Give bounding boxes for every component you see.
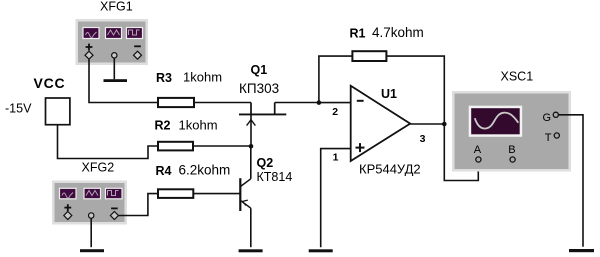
ground (right, XSC1 G) <box>569 249 594 252</box>
ground (XFG2 common) <box>80 249 104 252</box>
node (output) <box>442 122 447 127</box>
svg-text:XSC1: XSC1 <box>501 70 534 84</box>
oscilloscope XSC1 <box>452 70 571 172</box>
svg-text:T: T <box>545 132 552 144</box>
svg-text:6.2kohm: 6.2kohm <box>179 162 231 177</box>
svg-text:U1: U1 <box>381 87 397 101</box>
svg-text:R4: R4 <box>156 164 172 178</box>
svg-text:XFG1: XFG1 <box>100 0 133 14</box>
transistor Q2 (KT814) <box>240 156 292 247</box>
wire R2 to gate node <box>193 145 251 147</box>
svg-text:2: 2 <box>332 106 338 118</box>
node (gate of Q1 / R2 / Q2 collector) <box>249 144 254 149</box>
svg-text:-15V: -15V <box>5 101 32 115</box>
svg-text:XFG2: XFG2 <box>82 161 115 175</box>
power source VCC <box>5 75 70 125</box>
wire inverting input <box>319 102 351 104</box>
svg-text:1kohm: 1kohm <box>183 70 222 85</box>
svg-text:1kohm: 1kohm <box>179 117 218 132</box>
wire op-amp output <box>410 123 444 125</box>
wire VCC to R2 <box>58 125 159 159</box>
svg-text:КП303: КП303 <box>239 81 279 96</box>
wire R4 to Q2 base <box>193 193 240 195</box>
svg-text:3: 3 <box>420 133 426 145</box>
ground (Q2 emitter) <box>239 249 263 252</box>
function generator XFG2 <box>52 161 127 225</box>
svg-text:4.7kohm: 4.7kohm <box>372 25 424 40</box>
svg-text:1: 1 <box>333 152 339 164</box>
node (inverting input) <box>317 100 322 105</box>
svg-text:Q2: Q2 <box>257 156 274 170</box>
svg-text:КР544УД2: КР544УД2 <box>359 161 421 176</box>
wire output to XSC1 A <box>444 124 478 181</box>
resistor R1 <box>350 25 424 61</box>
wire node to Q2 collector <box>250 146 252 179</box>
function generator XFG1 <box>76 0 149 65</box>
ground (op-amp + input) <box>309 249 333 252</box>
wire XSC1 G to ground <box>558 115 583 247</box>
svg-text:B: B <box>508 144 515 156</box>
svg-text:R2: R2 <box>155 119 171 133</box>
wire R1 right to output node <box>386 56 444 124</box>
wire XFG2 - to R4 <box>119 194 158 216</box>
wire non-inverting input to ground <box>321 149 351 248</box>
wire XFG1 + to R3 <box>89 59 158 102</box>
transistor Q1 (JFET KP303) <box>239 63 286 147</box>
wire XFG2 common to ground <box>90 218 92 247</box>
svg-text:Q1: Q1 <box>251 63 268 77</box>
wire R1 left to node 2 <box>319 56 353 103</box>
resistor R3 <box>156 70 222 108</box>
resistor R2 <box>155 117 218 150</box>
svg-text:A: A <box>474 144 482 156</box>
op-amp U1 (KR544UD2) <box>332 86 425 177</box>
svg-text:R3: R3 <box>156 71 172 85</box>
resistor R4 <box>156 162 231 198</box>
svg-text:КТ814: КТ814 <box>257 170 293 184</box>
wire Q1 drain to node 2 <box>275 102 319 104</box>
svg-text:G: G <box>543 112 552 124</box>
svg-text:VCC: VCC <box>34 75 66 91</box>
svg-text:R1: R1 <box>350 26 366 40</box>
wire R3 to Q1 source <box>194 102 251 104</box>
ground (XFG1 common) <box>104 58 128 82</box>
